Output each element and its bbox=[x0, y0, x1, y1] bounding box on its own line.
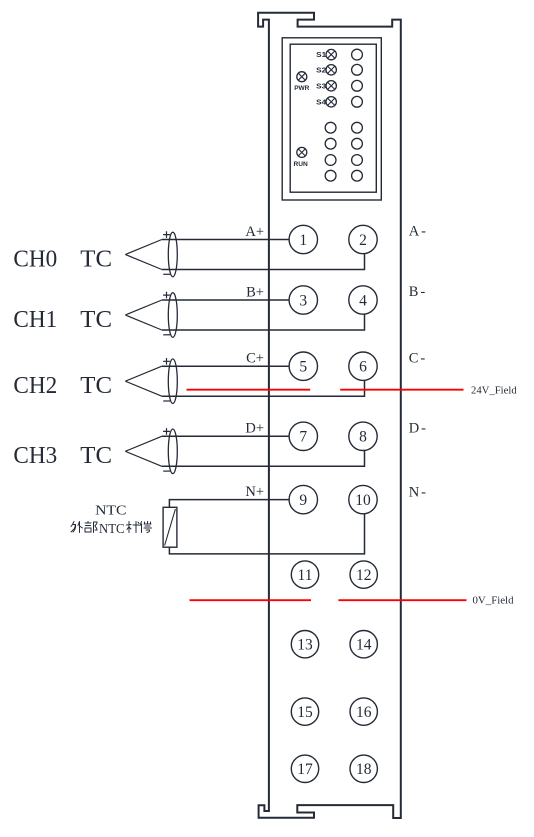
svg-text:17: 17 bbox=[297, 761, 313, 778]
svg-text:4: 4 bbox=[359, 292, 367, 309]
svg-text:B-: B- bbox=[409, 284, 428, 300]
svg-text:C-: C- bbox=[409, 350, 428, 366]
svg-text:5: 5 bbox=[299, 359, 307, 376]
svg-text:9: 9 bbox=[299, 492, 307, 509]
svg-text:NTC: NTC bbox=[99, 521, 125, 536]
svg-text:A-: A- bbox=[409, 224, 428, 240]
svg-text:CH1: CH1 bbox=[13, 307, 57, 333]
svg-text:A+: A+ bbox=[245, 224, 264, 240]
svg-text:N-: N- bbox=[409, 484, 428, 500]
svg-text:TC: TC bbox=[80, 443, 112, 469]
svg-text:0V_Field: 0V_Field bbox=[473, 595, 515, 606]
svg-text:18: 18 bbox=[356, 761, 372, 778]
svg-text:S4: S4 bbox=[316, 99, 326, 106]
svg-text:24V_Field: 24V_Field bbox=[471, 385, 517, 396]
svg-text:8: 8 bbox=[359, 429, 367, 446]
svg-text:S2: S2 bbox=[316, 67, 326, 74]
svg-text:2: 2 bbox=[359, 232, 367, 249]
svg-text:B+: B+ bbox=[246, 284, 264, 300]
svg-text:NTC: NTC bbox=[95, 504, 126, 519]
svg-text:15: 15 bbox=[297, 704, 313, 721]
svg-text:PWR: PWR bbox=[294, 85, 309, 92]
svg-text:C+: C+ bbox=[246, 351, 264, 367]
svg-text:7: 7 bbox=[299, 429, 307, 446]
svg-text:3: 3 bbox=[299, 292, 307, 309]
svg-text:S1: S1 bbox=[316, 52, 326, 59]
svg-text:1: 1 bbox=[299, 232, 307, 249]
svg-text:TC: TC bbox=[80, 307, 112, 333]
svg-text:CH2: CH2 bbox=[13, 373, 57, 399]
svg-text:10: 10 bbox=[355, 492, 371, 509]
svg-text:16: 16 bbox=[356, 704, 372, 721]
svg-text:S3: S3 bbox=[316, 83, 326, 90]
svg-text:11: 11 bbox=[298, 567, 313, 584]
svg-text:CH0: CH0 bbox=[13, 246, 57, 272]
svg-text:13: 13 bbox=[297, 637, 313, 654]
svg-text:D+: D+ bbox=[245, 421, 264, 437]
svg-text:D-: D- bbox=[409, 420, 428, 436]
svg-text:6: 6 bbox=[359, 359, 367, 376]
svg-text:TC: TC bbox=[80, 373, 112, 399]
svg-text:CH3: CH3 bbox=[13, 443, 57, 469]
svg-text:12: 12 bbox=[356, 567, 372, 584]
svg-text:14: 14 bbox=[356, 637, 372, 654]
svg-text:TC: TC bbox=[80, 246, 112, 272]
svg-text:N+: N+ bbox=[245, 484, 264, 500]
svg-text:RUN: RUN bbox=[294, 161, 309, 168]
